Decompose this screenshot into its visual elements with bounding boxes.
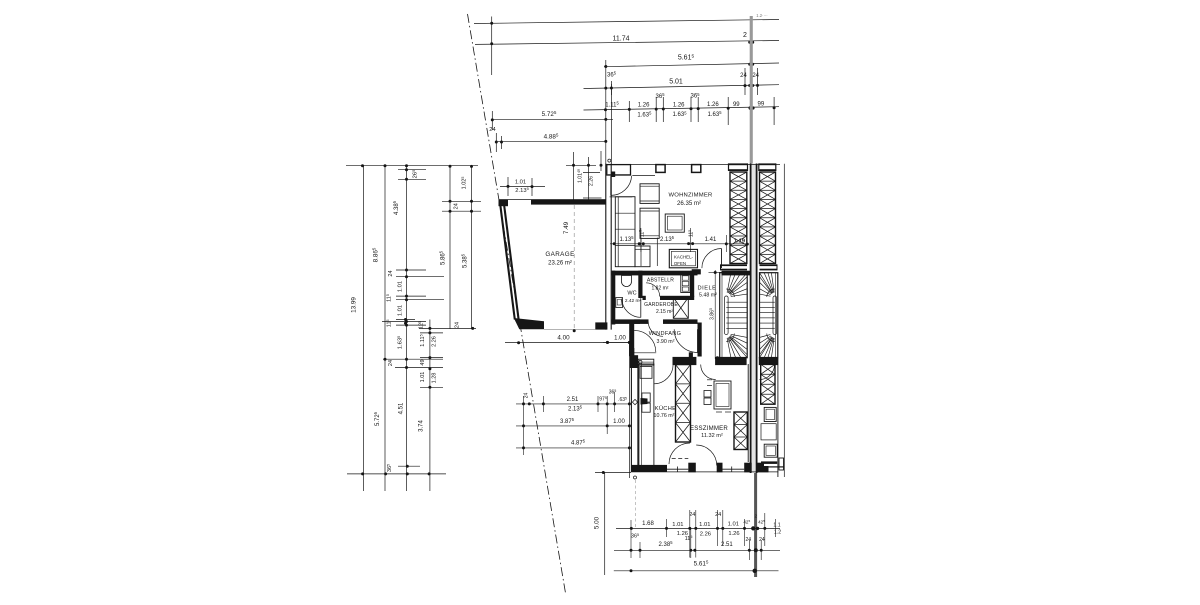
svg-text:49: 49 [420, 359, 426, 365]
svg-text:1.01: 1.01 [728, 522, 739, 528]
right unit dining door arc [760, 365, 775, 380]
wall WC/storage [638, 271, 642, 298]
svg-text:24: 24 [740, 73, 747, 79]
svg-text:13.99: 13.99 [351, 297, 358, 313]
svg-text:1.01: 1.01 [672, 522, 683, 528]
extension verticals mid-left [524, 342, 630, 478]
svg-text:24: 24 [752, 73, 759, 79]
right unit hatched column [761, 364, 775, 404]
right unit furniture 3 [761, 444, 777, 464]
dining chairs [704, 380, 731, 412]
washer cabinet in storage [681, 274, 690, 292]
svg-text:1.00: 1.00 [614, 336, 626, 342]
left dim block top tick row y=165.5 [346, 164, 478, 168]
svg-text:5.00: 5.00 [594, 516, 601, 529]
svg-text:3.74: 3.74 [419, 420, 425, 432]
svg-text:OFEN: OFEN [674, 261, 686, 266]
terrace door threshold [607, 165, 631, 177]
svg-text:1.01: 1.01 [420, 372, 426, 383]
dining table [714, 381, 731, 409]
svg-text:1.68: 1.68 [642, 521, 654, 527]
dim 4.88-5 above garage [495, 133, 608, 152]
garage west wall (slanted) [500, 201, 519, 320]
svg-text:2.51: 2.51 [721, 542, 733, 548]
door living room to hall [702, 249, 722, 269]
svg-text:KACHEL-: KACHEL- [674, 254, 694, 259]
bottom chain row 1 [616, 510, 781, 558]
living room label [669, 193, 713, 207]
svg-text:GARAGE: GARAGE [545, 251, 574, 258]
svg-text:ESSZIMMER: ESSZIMMER [690, 425, 728, 432]
shaft bottom band right [760, 264, 778, 270]
left dim chain x=429.9 [396, 318, 476, 491]
living room interior dim row 1.13-5 / 2.13-5 / 1.41 / 1.19 [610, 228, 749, 252]
svg-text:24: 24 [388, 360, 394, 366]
svg-text:1.1: 1.1 [773, 523, 780, 529]
shaft cap band left [729, 163, 748, 171]
svg-text:24: 24 [489, 127, 496, 133]
svg-text:1.01: 1.01 [515, 180, 526, 186]
svg-text:1.82 m²: 1.82 m² [652, 286, 669, 292]
extension line x=611.8 down to wall [610, 84, 612, 164]
windfang south dim tick [634, 348, 656, 357]
wall band under stairs right unit [759, 358, 777, 365]
shelf unit upper [640, 184, 659, 204]
kitchen west wall [631, 355, 638, 472]
garderobe south wall + door to windfang [634, 319, 697, 336]
svg-text:24: 24 [454, 203, 460, 209]
storage east wall [690, 271, 694, 297]
dining room label [690, 425, 728, 439]
party wall double line through building [751, 164, 757, 474]
living room north sill line [606, 163, 780, 165]
circle marker bottom left [634, 476, 637, 479]
dim chain: top boundary line [474, 17, 779, 76]
hatched shaft wall left [730, 172, 747, 264]
kitchen NW corner block [630, 355, 638, 368]
svg-text:5.01: 5.01 [669, 79, 683, 86]
svg-text:11.32 m²: 11.32 m² [701, 433, 723, 439]
kitchen counter along west wall [639, 364, 654, 466]
WC door arc [622, 298, 641, 317]
svg-text:24: 24 [455, 322, 461, 328]
svg-text:1.26: 1.26 [638, 103, 650, 109]
south wall pier 2 [717, 463, 723, 473]
garage north wall [499, 199, 606, 206]
svg-text:1.2: 1.2 [774, 530, 781, 536]
svg-text:1.00: 1.00 [613, 419, 625, 425]
right unit east wall [777, 358, 779, 477]
wall band under stairs left [716, 356, 746, 364]
bottom chain row 2 [614, 520, 780, 560]
dim row 3.87-5 / 1.00 [516, 396, 631, 434]
door kitchen-dining at south [669, 443, 690, 464]
wall storage/garderobe + door [643, 283, 695, 300]
svg-text:1.26: 1.26 [707, 102, 719, 108]
windfang dim 1.00 [603, 341, 634, 344]
right unit east cut line [783, 164, 785, 477]
party wall between units - upper gray band [750, 16, 753, 164]
WC west wall [612, 271, 616, 325]
svg-text:5.48 m²: 5.48 m² [699, 293, 717, 299]
WC south wall band [612, 319, 640, 324]
left dim vertical 13.99 [351, 166, 364, 491]
south wall pier 1 [688, 463, 696, 473]
right unit furniture 1 [764, 407, 776, 421]
south window sill line [631, 471, 779, 473]
hall/windfang west wall [698, 323, 702, 357]
svg-text:2.15 m²: 2.15 m² [656, 309, 673, 315]
kitchen upper cabinet + hob [640, 366, 652, 378]
svg-text:1.01: 1.01 [398, 305, 404, 316]
dining east wall at party wall [747, 364, 749, 462]
hatched shaft wall right [760, 172, 776, 264]
garage dim 1.01 / 2.13-5 top left [500, 177, 545, 196]
dim 11.74 with end dots [475, 32, 779, 45]
door hall to windfang (big arc) [674, 329, 697, 352]
tiny illegible note above party wall [756, 13, 767, 18]
svg-text:24: 24 [746, 537, 752, 543]
vertical dim 1.01/49 2.26 at x=573.5 [566, 151, 603, 200]
left dim vertical 8.86-5 [372, 166, 385, 491]
garage east wall / house west wall [606, 164, 612, 330]
svg-text:1.28: 1.28 [432, 373, 438, 384]
garage room label [545, 251, 574, 267]
svg-text:24: 24 [524, 393, 530, 399]
garderobe label [644, 302, 678, 315]
kitchen sink with faucet arrow and door marker [632, 393, 650, 412]
dashed extension below entry [635, 480, 637, 528]
living room north wall pier 1 [656, 165, 665, 173]
circle marker top left [608, 159, 611, 162]
svg-text:KÜCHE: KÜCHE [655, 405, 676, 412]
storage room label ABSTELLR [647, 277, 674, 291]
svg-text:4.51: 4.51 [399, 402, 405, 414]
svg-text:7.49: 7.49 [563, 221, 570, 234]
svg-text:WOHNZIMMER: WOHNZIMMER [669, 193, 713, 199]
south wall kitchen segment [631, 465, 667, 472]
kitchen door arc [654, 365, 673, 384]
table living room [665, 214, 684, 232]
entry door arc [634, 330, 656, 352]
south wall right unit steps [757, 463, 784, 473]
entry threshold step [638, 359, 654, 365]
living room south wall [612, 271, 751, 276]
bottom boundary line of building with dot [595, 471, 631, 474]
svg-text:2.26: 2.26 [589, 176, 595, 186]
windfang label [649, 331, 682, 345]
south wall corner at party wall [744, 463, 752, 473]
svg-text:3.90 m²: 3.90 m² [657, 339, 675, 345]
svg-text:24: 24 [759, 537, 765, 543]
svg-text:1.01: 1.01 [699, 522, 710, 528]
svg-text:26.35 m²: 26.35 m² [677, 200, 701, 207]
svg-text:99: 99 [733, 102, 740, 108]
WC wash basin [616, 298, 623, 308]
shaft cap band right [759, 163, 776, 171]
sofa L-shape along west wall [615, 197, 657, 267]
dim row 2.51 / 2.13-5 [516, 389, 631, 412]
svg-text:1.41: 1.41 [705, 237, 717, 243]
extension line x=604.8 down to garage corner [605, 60, 607, 164]
svg-text:2.51: 2.51 [567, 397, 579, 403]
svg-text:11.74: 11.74 [613, 36, 630, 43]
left dim vertical chain x=406.5 [382, 166, 444, 491]
svg-text:2.26: 2.26 [432, 336, 438, 347]
svg-text:24: 24 [715, 512, 721, 518]
svg-text:1.26: 1.26 [673, 102, 685, 108]
dim row 4.87-5 [516, 439, 631, 450]
window glass line 2 [723, 467, 745, 472]
staircase left unit [720, 273, 748, 358]
left dim labels lower [373, 402, 404, 426]
svg-text:24: 24 [689, 512, 695, 518]
windfang west wall [629, 323, 634, 357]
window glass line 1 [667, 467, 688, 472]
svg-text:WINDFANG: WINDFANG [649, 331, 682, 337]
diagonal plot boundary dash-dot line [468, 14, 566, 593]
svg-text:10.76 m²: 10.76 m² [654, 413, 675, 419]
svg-text:WC: WC [627, 290, 636, 296]
terrace door dining arc [696, 445, 717, 466]
toilet [622, 276, 632, 287]
svg-text:ABSTELLR: ABSTELLR [647, 277, 674, 283]
block wall left of living room door [692, 269, 701, 274]
svg-text:24: 24 [388, 270, 394, 276]
vertical dim 5.00 [594, 473, 605, 576]
svg-text:4.00: 4.00 [557, 334, 570, 341]
right unit furniture 2 [761, 424, 776, 440]
dim chain 1.11-5 / 1.26 / 1.63-5 row [584, 92, 780, 125]
svg-text:2.26: 2.26 [700, 532, 711, 538]
bottom chain row 3 (5.61-5) [614, 560, 779, 573]
staircase right unit (mirrored) [760, 273, 778, 358]
left dim vertical x=450 (5.86-5) [439, 166, 481, 329]
garage interior centre dashed line 7.49 [563, 205, 576, 332]
shelf unit lower [640, 208, 659, 238]
svg-text:1.2····: 1.2···· [756, 13, 767, 18]
svg-text:23.26 m²: 23.26 m² [548, 261, 572, 267]
left dim bottom rows [347, 464, 446, 475]
kitchen label [654, 405, 677, 419]
living room north wall pier 2 [692, 165, 701, 173]
WC label [625, 290, 642, 304]
hall east dim 3.86-5 [709, 270, 725, 359]
hall label DIELE [698, 285, 718, 298]
left dim vertical x=471.5 (5.38-5) [461, 166, 472, 329]
svg-text:2: 2 [743, 32, 747, 39]
svg-text:1.01: 1.01 [398, 281, 404, 292]
shaft bottom band left [721, 264, 748, 270]
svg-text:2.42 m²: 2.42 m² [625, 298, 642, 304]
dim 5.72-5 above garage [489, 110, 613, 133]
svg-text:DIELE: DIELE [698, 285, 717, 291]
party wall lower dark band [754, 473, 757, 577]
hatched chimney column kitchen/dining [676, 365, 691, 443]
svg-text:99: 99 [758, 102, 765, 108]
tile stove KACHELOFEN [669, 249, 697, 267]
right unit SE corner blocks [779, 458, 784, 470]
hatched column dining east [734, 412, 747, 450]
wardrobe X-box [673, 298, 688, 319]
dim 5.01 [584, 68, 780, 95]
dim 4.00 garage door / 1.00 [505, 334, 631, 344]
wall band kitchen door to dining door [673, 352, 696, 364]
terrace door leaf and arc [610, 176, 655, 197]
dim 5.61-5 [604, 53, 779, 68]
dining door arc [701, 365, 716, 380]
svg-text:1.26: 1.26 [728, 531, 739, 537]
garage south wall + door post [514, 318, 608, 330]
